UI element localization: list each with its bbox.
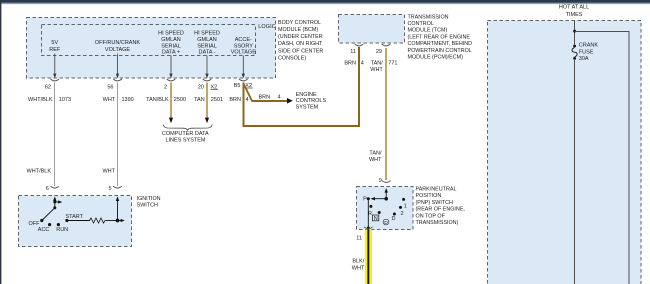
svg-text:BRN: BRN — [229, 97, 241, 103]
svg-text:2: 2 — [400, 211, 403, 217]
svg-text:(PNP) SWITCH: (PNP) SWITCH — [416, 200, 454, 206]
wire label WHT — [103, 97, 116, 103]
svg-text:TRANSMISSION): TRANSMISSION) — [416, 220, 459, 226]
svg-text:OFF: OFF — [29, 221, 41, 227]
connector bracket pin 20 — [203, 79, 212, 81]
wire label BLK/WHT — [352, 259, 365, 272]
svg-text:POWERTRAIN CONTROL: POWERTRAIN CONTROL — [408, 48, 472, 54]
svg-text:REF: REF — [49, 47, 61, 53]
PNP wire P to pin 11 — [367, 199, 369, 230]
svg-text:TAN/: TAN/ — [369, 150, 382, 156]
crank voltage wire (left vertical) top segment — [574, 21, 576, 45]
ignition right arrow after junction — [118, 219, 125, 222]
svg-text:4: 4 — [361, 61, 364, 67]
svg-text:FUSE: FUSE — [579, 49, 594, 55]
svg-text:29: 29 — [376, 49, 382, 55]
svg-text:SYSTEM: SYSTEM — [296, 105, 319, 111]
pin number 56 — [107, 84, 113, 90]
wire WHT/BLK 1073 (vertical) — [54, 83, 56, 187]
svg-text:WHT: WHT — [370, 67, 383, 73]
BCM internal arrow pin 20 — [205, 56, 208, 79]
svg-text:TAN/BLK: TAN/BLK — [146, 97, 169, 103]
connector bracket PNP pin 9 — [382, 181, 391, 183]
pin number 62 — [45, 84, 51, 90]
label BRN on horizontal — [259, 94, 271, 100]
svg-text:5V: 5V — [51, 40, 58, 46]
svg-text:TAN: TAN — [194, 97, 205, 103]
ignition contact ACC — [38, 223, 51, 233]
svg-text:SERIAL: SERIAL — [161, 43, 181, 49]
svg-text:SWITCH: SWITCH — [137, 203, 158, 209]
ignition junction dot at start line — [116, 219, 120, 223]
ignition contact RUN — [56, 223, 68, 233]
BCM internal arrow pin 62 — [53, 54, 56, 79]
svg-text:GMLAN: GMLAN — [161, 37, 181, 43]
svg-text:11: 11 — [356, 236, 362, 242]
svg-text:HI SPEED: HI SPEED — [158, 31, 184, 37]
BRN vertical up to TCM pin 11 — [358, 47, 360, 127]
PNP description text — [416, 187, 466, 227]
PNP contact D — [392, 213, 396, 222]
svg-text:RUN: RUN — [56, 227, 68, 233]
svg-text:CRANK: CRANK — [579, 43, 599, 49]
pin number 2 — [164, 84, 167, 90]
connector id X2 at pin 20 — [211, 84, 219, 90]
pin number 20 — [198, 84, 204, 90]
wire label TAN/BLK — [146, 97, 169, 103]
wire label TAN/WHT mid-run — [369, 150, 382, 163]
left frame line — [0, 0, 1, 284]
ignition small right arrow — [53, 200, 62, 203]
connector bracket pin 2 — [167, 79, 176, 81]
svg-text:MODULE (PCM)/ECM): MODULE (PCM)/ECM) — [408, 55, 464, 61]
svg-text:GMLAN: GMLAN — [197, 37, 217, 43]
arrow engine controls system — [287, 98, 293, 104]
BCM internal arrow pin B5 — [242, 56, 245, 79]
svg-text:BLK/: BLK/ — [352, 259, 364, 265]
BCM outer dashed box — [27, 18, 276, 79]
BRN spur diagonal to engine controls — [244, 84, 253, 102]
svg-text:BODY CONTROL: BODY CONTROL — [278, 20, 321, 26]
BRN horizontal to engine controls arrow — [251, 100, 288, 102]
right power dashed box — [488, 21, 642, 284]
svg-text:9: 9 — [379, 178, 382, 184]
svg-text:MODULE (TCM): MODULE (TCM) — [408, 28, 448, 34]
circuit number 1390 — [122, 97, 134, 103]
wire BRN 4 from BCM B5 (vertical) — [242, 83, 244, 128]
circuit number 4 on horizontal — [278, 94, 281, 100]
circuit number 4 at TCM — [361, 61, 364, 67]
svg-text:OFF/RUN/CRANK: OFF/RUN/CRANK — [95, 40, 141, 46]
top frame bar — [0, 0, 650, 5]
svg-text:SERIAL: SERIAL — [197, 43, 217, 49]
second vertical wire — [628, 32, 630, 284]
svg-text:LINES SYSTEM: LINES SYSTEM — [165, 138, 205, 144]
circuit number 1073 — [59, 97, 71, 103]
connector bracket PNP pin 11 — [364, 227, 373, 229]
svg-text:771: 771 — [388, 61, 397, 67]
wire TAN 2501 (vertical) — [206, 83, 208, 119]
svg-text:VOLTAGE: VOLTAGE — [105, 47, 130, 53]
arrow to computer data lines (left) — [169, 118, 173, 124]
svg-text:START: START — [66, 214, 84, 220]
BCM description text — [278, 20, 323, 62]
BCM pin function label: 5V REF — [49, 40, 61, 53]
label ENGINE CONTROLS SYSTEM — [296, 92, 327, 111]
crank voltage wire lower segment — [574, 60, 576, 284]
svg-text:2: 2 — [164, 84, 167, 90]
svg-text:COMPARTMENT, BEHIND: COMPARTMENT, BEHIND — [408, 41, 473, 47]
svg-text:D: D — [392, 216, 396, 222]
PNP contact 1 — [402, 198, 407, 210]
svg-text:WHT: WHT — [352, 266, 365, 272]
svg-text:1: 1 — [404, 203, 407, 209]
ignition wiper junction dot — [53, 206, 56, 209]
svg-text:56: 56 — [107, 84, 113, 90]
pin number 6 (ignition) — [46, 186, 49, 192]
PNP contact N (boxed) — [372, 211, 380, 222]
svg-text:(LEFT REAR OF ENGINE: (LEFT REAR OF ENGINE — [408, 34, 471, 40]
branch horizontal to second wire — [575, 31, 630, 33]
connector bracket TCM pin 11 — [355, 44, 364, 46]
svg-text:ACC: ACC — [38, 227, 50, 233]
BCM internal arrow pin 2 — [169, 56, 172, 79]
ignition wire label WHT (lower) — [102, 169, 115, 175]
junction dot at power feed — [573, 30, 576, 33]
svg-text:1390: 1390 — [122, 97, 134, 103]
PNP dashed box — [357, 187, 414, 230]
ignition wire label WHT/BLK (lower) — [27, 169, 52, 175]
svg-text:TIMES: TIMES — [566, 12, 583, 18]
arrow to computer data lines (right) — [205, 118, 209, 124]
label HOT AT ALL TIMES — [559, 5, 589, 18]
svg-text:4: 4 — [246, 97, 249, 103]
wire BLK/WHT highlighted yellow — [365, 230, 372, 284]
svg-text:DASH, ON RIGHT: DASH, ON RIGHT — [278, 41, 323, 47]
wire label BRN — [229, 97, 241, 103]
ignition contact START — [65, 214, 83, 222]
svg-text:MODULE (BCM): MODULE (BCM) — [278, 27, 318, 33]
PNP interior arrow up to pin 9 — [385, 188, 388, 199]
svg-text:IGNITION: IGNITION — [137, 196, 161, 202]
svg-text:WHT: WHT — [369, 157, 382, 163]
connector bracket ignition pin 5 — [113, 186, 122, 188]
circuit number 2500 — [174, 97, 186, 103]
svg-text:6: 6 — [46, 186, 49, 192]
svg-text:R: R — [368, 211, 372, 217]
svg-text:SSORY: SSORY — [234, 43, 253, 49]
svg-text:HI SPEED: HI SPEED — [194, 31, 220, 37]
ignition resistor line — [67, 218, 118, 223]
svg-text:30A: 30A — [579, 56, 589, 62]
pin number 11 (PNP) — [356, 236, 362, 242]
svg-text:20: 20 — [198, 84, 204, 90]
svg-text:WHT/BLK: WHT/BLK — [28, 97, 53, 103]
BRN bottom horizontal run to TCM — [242, 125, 360, 127]
svg-text:5: 5 — [108, 186, 111, 192]
brace computer data group — [163, 125, 212, 131]
pin number 5 (ignition) — [108, 186, 111, 192]
pin number 11 (TCM) — [350, 49, 356, 55]
svg-text:WHT/BLK: WHT/BLK — [27, 169, 52, 175]
connector bracket TCM pin 29 — [382, 44, 391, 46]
circuit number 4 — [246, 97, 249, 103]
connector bracket pin B5 — [239, 79, 248, 81]
connector bracket ignition pin 6 — [51, 186, 60, 188]
svg-text:WHT: WHT — [103, 97, 116, 103]
BCM pin function label: ACCESSORY VOLTAGE — [231, 37, 256, 56]
PNP contact R — [368, 205, 372, 217]
svg-text:(REAR OF ENGINE,: (REAR OF ENGINE, — [416, 207, 466, 213]
BCM pin function label: HI SPEED GMLAN SERIAL DATA + — [158, 31, 184, 56]
ignition wiper diagonal to OFF — [42, 208, 55, 221]
pin number 9 (PNP) — [379, 178, 382, 184]
connector bracket pin 56 — [113, 79, 122, 81]
svg-text:CONTROLS: CONTROLS — [296, 98, 327, 104]
svg-text:ENGINE: ENGINE — [296, 92, 317, 98]
TCM dashed box — [339, 15, 405, 44]
PNP contact 2 — [399, 206, 404, 217]
svg-text:DATA -: DATA - — [199, 50, 216, 56]
svg-text:ACCE-: ACCE- — [235, 37, 252, 43]
wire label BRN at TCM — [344, 61, 356, 67]
svg-text:POSITION: POSITION — [416, 193, 442, 199]
svg-text:COMPUTER DATA: COMPUTER DATA — [162, 131, 209, 137]
LOGIC label — [258, 24, 276, 30]
PNP interior arrow left to P — [370, 197, 386, 200]
PNP bottom junction dot — [367, 227, 370, 230]
circuit number 771 — [388, 61, 397, 67]
wire label WHT/BLK — [28, 97, 53, 103]
BCM pin function label: HI SPEED GMLAN SERIAL DATA - — [194, 31, 220, 56]
BCM pin function label: OFF/RUN/CRANK VOLTAGE — [95, 40, 141, 53]
svg-text:B5: B5 — [234, 83, 241, 89]
circuit number 2501 — [211, 97, 223, 103]
PNP contact D (circled) — [383, 219, 389, 226]
label IGNITION SWITCH — [137, 196, 161, 209]
wire WHT 1390 (vertical) — [117, 83, 119, 187]
pin number 29 (TCM) — [376, 49, 382, 55]
label COMPUTER DATA LINES SYSTEM — [162, 131, 209, 143]
PNP contact P — [363, 197, 370, 203]
connector bracket pin 62 — [51, 79, 60, 81]
svg-text:11: 11 — [350, 49, 356, 55]
svg-text:BRN: BRN — [259, 94, 271, 100]
wire label TAN/WHT at TCM — [370, 61, 383, 73]
svg-text:VOLTAGE: VOLTAGE — [231, 50, 256, 56]
svg-text:LOGIC: LOGIC — [258, 24, 276, 30]
svg-text:CONTROL: CONTROL — [408, 21, 434, 27]
TCM description text — [408, 14, 473, 60]
BCM internal arrow pin 56 — [116, 54, 119, 79]
svg-text:CONSOLE): CONSOLE) — [278, 55, 306, 61]
ignition interior arrow up to pin 5 — [116, 196, 119, 220]
wire TAN/WHT 771 (vertical) — [385, 48, 387, 180]
svg-text:TRANSMISSION: TRANSMISSION — [408, 14, 449, 20]
wire label TAN — [194, 97, 205, 103]
svg-text:4: 4 — [278, 94, 281, 100]
svg-text:PARK/NEUTRAL: PARK/NEUTRAL — [416, 187, 457, 193]
svg-text:P: P — [363, 197, 367, 203]
crank fuse symbol — [572, 45, 577, 60]
svg-text:2500: 2500 — [174, 97, 186, 103]
wire TAN/BLK 2500 (vertical) — [170, 83, 172, 119]
svg-text:62: 62 — [45, 84, 51, 90]
ignition interior arrow up to pin 6 — [53, 196, 56, 208]
svg-text:SIDE OF CENTER: SIDE OF CENTER — [278, 48, 323, 54]
svg-text:ON TOP OF: ON TOP OF — [416, 213, 446, 219]
BCM inner logic dashed box — [42, 25, 256, 56]
svg-text:DATA +: DATA + — [162, 50, 180, 56]
svg-text:2501: 2501 — [211, 97, 223, 103]
svg-text:HOT AT ALL: HOT AT ALL — [559, 5, 589, 11]
svg-text:BRN: BRN — [344, 61, 356, 67]
svg-text:WHT: WHT — [102, 169, 115, 175]
pin number B5 — [234, 83, 241, 89]
svg-text:1073: 1073 — [59, 97, 71, 103]
PNP junction dot — [384, 197, 388, 201]
ignition contact OFF — [29, 219, 44, 227]
ignition switch dashed box — [19, 196, 132, 247]
svg-text:TAN/: TAN/ — [371, 61, 384, 67]
label CRANK FUSE 30A — [579, 43, 599, 63]
connector id X2 at pin B5 — [245, 83, 253, 89]
svg-text:D: D — [384, 220, 388, 226]
svg-text:(UNDER CENTER: (UNDER CENTER — [278, 34, 323, 40]
